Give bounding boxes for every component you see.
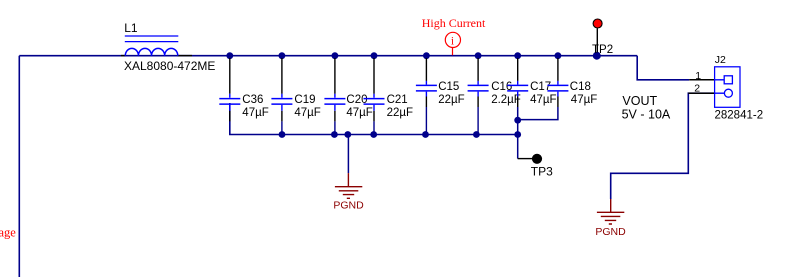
capacitor C15 [416,58,437,135]
svg-text:22µF: 22µF [438,94,464,106]
junction node at TP2 on top rail [593,52,601,60]
junction node where C18 joins C17 branch [514,117,521,124]
capacitor C17 [507,58,528,107]
J2 pin number 1 [695,70,701,82]
svg-text:J2: J2 [715,54,726,66]
J2 pin 1 stub [689,79,724,81]
svg-text:VOUT: VOUT [622,94,657,108]
label TP3 [531,164,553,178]
C16 value 2.2uF [491,94,521,106]
svg-text:47µF: 47µF [242,107,268,119]
svg-text:C18: C18 [570,81,591,93]
C15 value 22uF [438,94,464,106]
junction node at C15 on bottom rail [422,131,429,138]
label PGND (right) [595,226,626,238]
junction node at C15 on top rail [423,52,430,59]
C18 value 47uF [571,94,597,106]
junction node at C17 on bottom rail [514,131,521,138]
svg-text:L1: L1 [124,21,138,35]
label TP2 [592,44,613,56]
J2 value 282841-2 [715,110,764,122]
wire: C17 branch down to TP3 elbow [517,107,519,159]
wire: left vertical VOUT branch [18,56,20,277]
svg-text:47µF: 47µF [294,107,320,119]
junction node at C16 on top rail [475,52,482,59]
inductor L1 [121,36,192,56]
label C15 [438,81,459,93]
svg-text:age: age [0,225,16,239]
wire: bottom ground rail [230,103,518,135]
wire: top VOUT rail [19,55,637,57]
junction node at C20 on top rail [332,52,339,59]
svg-text:PGND: PGND [595,226,626,238]
wire: C18 bottom over to C17 branch [518,107,558,120]
C19 value 47uF [294,107,320,119]
label C18 [570,81,591,93]
net label VOUT [622,94,657,108]
annotation circled i [445,32,460,55]
test point TP2 [593,19,602,53]
label J2 [715,54,726,66]
ground PGND (left) [335,173,362,198]
svg-text:1: 1 [695,70,701,82]
annotation 5V - 10A [622,108,671,122]
label PGND (left) [333,200,364,212]
svg-text:2: 2 [694,83,700,95]
capacitor C16 [468,58,489,135]
junction node at C19 on top rail [279,52,286,59]
svg-text:PGND: PGND [333,200,364,212]
svg-text:47µF: 47µF [530,94,556,106]
label C16 [491,81,512,93]
svg-text:XAL8080-472ME: XAL8080-472ME [124,59,215,73]
connector J2 [688,67,740,108]
svg-text:282841-2: 282841-2 [715,110,764,122]
wire: PGND tap from bottom rail [347,135,349,174]
svg-text:TP3: TP3 [531,164,553,178]
svg-text:47µF: 47µF [346,107,372,119]
junction node at C17 on top rail [514,52,521,59]
svg-text:2.2µF: 2.2µF [491,94,521,106]
svg-text:5V - 10A: 5V - 10A [622,108,671,122]
capacitor C36 [219,58,240,135]
annotation High Current [422,16,486,30]
svg-text:C15: C15 [438,81,459,93]
capacitor C20 [324,58,345,135]
annotation clipped red text age [0,225,16,239]
wire: rail elbow down to J2 pin 1 [637,56,689,80]
svg-text:i: i [451,35,454,47]
capacitor C21 [364,58,385,135]
wire: black stub to TP3 [518,158,533,160]
junction node at C20 on bottom rail [331,131,338,138]
svg-text:22µF: 22µF [387,107,413,119]
C21 value 22uF [387,107,413,119]
label L1 [124,21,138,35]
C17 value 47uF [530,94,556,106]
wire: J2 pin 2 down to PGND (right) [611,93,715,199]
label C17 [530,81,551,93]
J2 pin number 2 [694,83,700,95]
junction node at C21 on bottom rail [370,131,377,138]
label C36 [242,94,263,106]
junction node at C19 on bottom rail [279,131,286,138]
junction node at C21 on top rail [371,52,378,59]
label C19 [294,94,315,106]
junction node at C36 on top rail [226,52,233,59]
label C20 [346,94,367,106]
C20 value 47uF [346,107,372,119]
svg-text:47µF: 47µF [571,94,597,106]
C36 value 47uF [242,107,268,119]
L1 value XAL8080-472ME [124,59,215,73]
junction node at PGND tap on bottom rail [344,131,351,138]
svg-text:C19: C19 [294,94,315,106]
junction node at C16 on bottom rail [473,131,480,138]
ground PGND (right) [597,199,624,224]
junction node at C18 on top rail [555,52,562,59]
svg-text:C36: C36 [242,94,263,106]
svg-text:High Current: High Current [422,16,486,30]
capacitor C18 [547,58,568,107]
label C21 [387,94,408,106]
svg-text:TP2: TP2 [592,44,613,56]
capacitor C19 [271,58,292,135]
test point TP3 [532,154,542,164]
svg-text:C21: C21 [387,94,408,106]
